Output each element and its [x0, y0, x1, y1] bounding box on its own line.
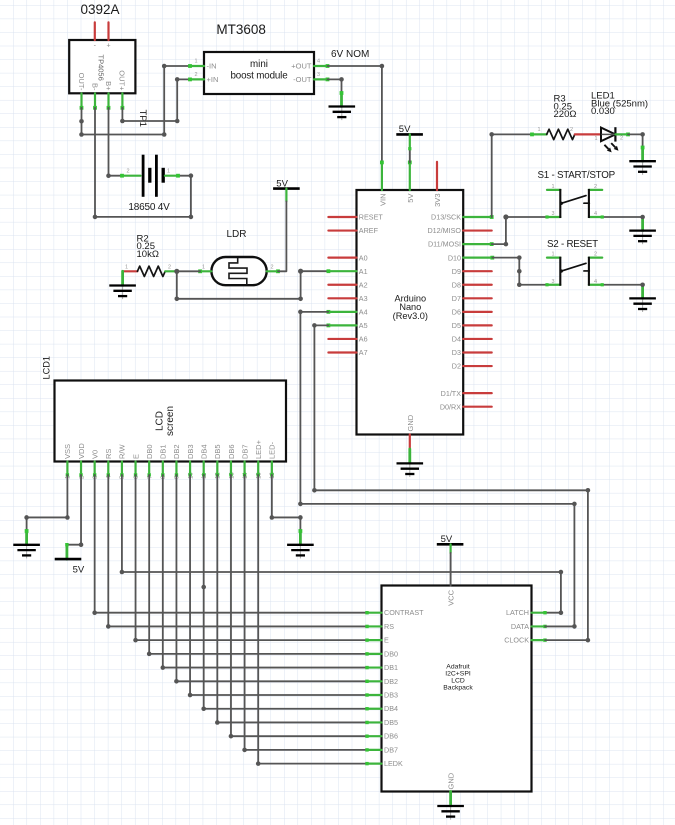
svg-text:0.030: 0.030 [591, 106, 615, 117]
svg-text:I2C+SPI: I2C+SPI [445, 670, 471, 677]
power symbol 5V below LCD [55, 559, 85, 575]
svg-text:4: 4 [594, 279, 597, 285]
Arduino pin VIN leg [380, 161, 384, 191]
wire LCD pin 6 to backpack E [133, 475, 367, 643]
backpack pin label GND [447, 772, 456, 789]
svg-text:A3: A3 [359, 294, 368, 303]
photoresistor LDR label [226, 229, 246, 240]
LCD1 pin legs [66, 462, 274, 477]
wire LCD pin 7 to backpack DB0 [147, 475, 367, 656]
svg-text:OUT-: OUT- [77, 73, 86, 91]
ground MT3608 -OUT [329, 107, 356, 121]
svg-text:A6: A6 [359, 335, 368, 344]
MT3608 pin number 2 [194, 72, 197, 78]
svg-text:D5: D5 [452, 321, 461, 330]
ground backpack [437, 806, 464, 820]
svg-text:18650 4V: 18650 4V [128, 202, 170, 213]
svg-text:A7: A7 [359, 348, 368, 357]
svg-text:B+: B+ [104, 81, 113, 91]
boost module MT3608 body [204, 52, 314, 94]
svg-text:+IN: +IN [207, 75, 219, 84]
LDR pin numbers [202, 264, 274, 270]
boost module MT3608 label [216, 22, 266, 37]
backpack pin VCC leg [450, 544, 452, 585]
svg-text:5V: 5V [441, 534, 453, 545]
svg-text:D13/SCK: D13/SCK [431, 213, 461, 222]
switch S2 pin numbers [551, 252, 597, 285]
TP4056 pin leg OUT- [80, 93, 84, 109]
photoresistor LDR pin1 leg [198, 269, 211, 273]
svg-text:GND: GND [447, 772, 456, 789]
junction dots CLOCK net [312, 323, 590, 642]
svg-text:DB2: DB2 [172, 444, 181, 459]
svg-text:VSS: VSS [63, 444, 72, 459]
junction dot S2 ground wire [640, 282, 645, 287]
resistor R2 body [137, 266, 165, 276]
svg-text:3V3: 3V3 [433, 194, 442, 207]
charger module TP4056 label 0392A [81, 2, 120, 17]
svg-text:AREF: AREF [359, 226, 379, 235]
svg-text:2: 2 [570, 127, 573, 133]
svg-text:OUT+: OUT+ [118, 70, 127, 91]
svg-text:MT3608: MT3608 [216, 22, 266, 37]
svg-text:D11/MOSI: D11/MOSI [428, 240, 461, 249]
wire S2 to ground [601, 283, 643, 298]
net label 6V NOM [331, 49, 369, 60]
ratsnest R3 to LED1 [575, 133, 601, 135]
wire LCD pin 8 to backpack DB1 [161, 475, 367, 670]
MT3608 pin leg +IN [188, 78, 204, 82]
svg-text:GND: GND [406, 414, 415, 431]
svg-text:1: 1 [202, 264, 205, 270]
junction dots A1 net [175, 269, 304, 302]
junction dot 6V NOM [380, 64, 385, 69]
Arduino unconnected left pins [328, 217, 356, 353]
wire LCD pin 4 to backpack RS [106, 475, 367, 629]
junction dots VDD net [65, 542, 83, 547]
svg-text:E: E [131, 454, 140, 459]
LCD1 pin numbers [66, 472, 276, 479]
svg-text:LED-: LED- [268, 441, 277, 459]
svg-text:2: 2 [270, 264, 273, 270]
Arduino pin 5V leg [408, 161, 412, 191]
svg-text:VIN: VIN [378, 194, 387, 207]
backpack name [443, 663, 473, 691]
MT3608 pin number 4 [317, 59, 320, 65]
svg-text:A1: A1 [359, 267, 368, 276]
svg-text:DB2: DB2 [384, 677, 398, 686]
svg-text:D4: D4 [452, 335, 461, 344]
svg-text:CONTRAST: CONTRAST [384, 608, 424, 617]
junction dots LED- net [270, 515, 303, 520]
svg-text:2: 2 [168, 264, 171, 270]
LED pin numbers [594, 136, 623, 143]
svg-text:mini: mini [250, 59, 268, 70]
svg-text:3: 3 [551, 279, 554, 285]
svg-text:B-: B- [90, 83, 99, 91]
svg-text:4: 4 [317, 59, 320, 65]
wire LDR node to Arduino A1 [177, 271, 329, 299]
TP4056 unconnected pin IN+ [107, 22, 109, 40]
svg-text:D0/RX: D0/RX [440, 402, 461, 411]
svg-text:5V: 5V [406, 194, 415, 203]
resistor R2 labels [137, 234, 159, 260]
svg-text:V0: V0 [90, 450, 99, 459]
LED LED1 labels [591, 91, 648, 117]
Arduino pin label 5V top [406, 194, 415, 203]
svg-text:DB0: DB0 [384, 649, 398, 658]
test point TP1 label [137, 110, 148, 127]
Arduino pin label 3V3 [433, 194, 442, 207]
svg-text:(Rev3.0): (Rev3.0) [393, 311, 428, 321]
backpack right pin labels [504, 608, 529, 644]
MT3608 pin label -IN [207, 61, 217, 70]
junction dot R2-LDR node [174, 269, 200, 274]
TP4056 pin leg OUT+ [121, 93, 125, 109]
wire VDD to 5V [67, 475, 81, 559]
wire D11 to S1 [492, 215, 549, 244]
wire A5 to backpack CLOCK [314, 325, 588, 640]
junction dots DATA net [298, 310, 577, 629]
Arduino pin label GND [406, 414, 415, 431]
svg-text:D3: D3 [452, 348, 461, 357]
svg-text:10kΩ: 10kΩ [137, 249, 159, 260]
svg-text:A2: A2 [359, 280, 368, 289]
wire D13 to R3 [492, 134, 532, 217]
svg-text:D6: D6 [452, 307, 461, 316]
MT3608 pin leg +OUT [314, 64, 329, 68]
TP4056 pin label OUT- [77, 73, 86, 91]
wire LCD pin 9 to backpack DB2 [174, 475, 367, 684]
svg-text:D9: D9 [452, 267, 461, 276]
LED cathode leg [615, 133, 629, 137]
ground Arduino GND [397, 463, 424, 477]
TP4056 pin label B+ [104, 81, 113, 91]
switch S1 label [538, 170, 616, 181]
TP4056 pin leg B- [93, 93, 97, 109]
LED LED1 symbol [601, 127, 615, 141]
svg-text:D1/TX: D1/TX [441, 389, 462, 398]
wire +OUT to Arduino VIN [328, 66, 382, 162]
svg-text:1: 1 [551, 252, 554, 258]
MT3608 pin label -OUT [293, 75, 312, 84]
resistor R3 labels [554, 94, 577, 120]
svg-text:RESET: RESET [359, 213, 384, 222]
charger module TP4056 body [69, 40, 135, 93]
svg-text:DB5: DB5 [213, 444, 222, 459]
backpack module body [382, 586, 532, 792]
svg-text:TP1: TP1 [137, 110, 148, 127]
svg-text:D10: D10 [448, 253, 461, 262]
svg-text:1: 1 [125, 264, 128, 270]
junction dot S1 ground wire [640, 215, 645, 220]
svg-text:Backpack: Backpack [443, 684, 473, 691]
wire LCD pin 13 to backpack DB6 [229, 475, 367, 739]
wire OUT- to MT3608 -IN [82, 66, 191, 135]
MT3608 pin number 3 [317, 72, 320, 78]
wire A4 to backpack DATA [300, 312, 574, 627]
svg-text:2: 2 [620, 136, 623, 142]
Arduino pin A1 leg [327, 269, 357, 273]
photoresistor LDR meander [229, 258, 247, 285]
svg-text:DB6: DB6 [227, 444, 236, 459]
svg-text:TP4056: TP4056 [97, 55, 106, 81]
svg-text:RS: RS [384, 622, 394, 631]
wire LCD pin 10 to backpack DB3 [188, 475, 367, 697]
wire LCD pin 12 to backpack DB5 [215, 475, 367, 725]
MT3608 pin label +OUT [291, 61, 312, 70]
svg-text:1: 1 [194, 59, 197, 65]
Arduino pin A5 leg [327, 324, 357, 328]
svg-text:D8: D8 [452, 280, 461, 289]
svg-text:3: 3 [551, 211, 554, 217]
wire R2 pin1 to ground [121, 271, 124, 285]
charger module TP4056 name [97, 55, 106, 81]
ground S2 [629, 298, 656, 312]
Arduino pin GND leg [409, 435, 411, 464]
svg-text:DB6: DB6 [384, 732, 398, 741]
svg-text:RS: RS [104, 449, 113, 459]
svg-text:A5: A5 [359, 321, 368, 330]
svg-text:5V: 5V [73, 564, 85, 575]
junction dot LED wire [640, 132, 645, 137]
battery pin number 1 [167, 169, 170, 175]
photoresistor LDR body [211, 257, 266, 285]
svg-text:1: 1 [167, 169, 170, 175]
resistor R2 pin1 stub [123, 270, 138, 272]
Arduino unconnected right pins [463, 231, 492, 407]
svg-text:DB3: DB3 [384, 691, 398, 700]
MT3608 pin number 1 [194, 59, 197, 65]
junction dots OUT+ net [120, 77, 179, 123]
Arduino pin A4 leg [327, 310, 357, 314]
ground LCD VSS [13, 545, 40, 559]
MT3608 pin leg -OUT [314, 78, 329, 82]
svg-text:DB5: DB5 [384, 718, 398, 727]
svg-text:4: 4 [594, 211, 597, 217]
svg-text:DATA: DATA [511, 622, 529, 631]
svg-text:2: 2 [594, 252, 597, 258]
LED LED1 emission arrows [604, 143, 618, 152]
svg-text:5V: 5V [399, 124, 411, 135]
svg-text:LED+: LED+ [254, 439, 263, 459]
svg-text:6V NOM: 6V NOM [331, 49, 369, 60]
photoresistor LDR pin2 leg [267, 269, 280, 273]
backpack pin GND leg [449, 792, 452, 807]
svg-text:+: + [106, 43, 110, 50]
TP4056 pin label B- [90, 83, 99, 91]
power symbol 5V above backpack [437, 534, 464, 545]
svg-text:R/W: R/W [118, 444, 127, 460]
svg-text:DB3: DB3 [186, 444, 195, 459]
wire LCD pin 15 to backpack LEDK [256, 475, 367, 766]
Arduino pin D11 leg [463, 242, 493, 246]
wire B+ to battery plus [109, 108, 123, 176]
svg-text:2: 2 [594, 184, 597, 190]
svg-text:VCC: VCC [447, 589, 456, 605]
svg-text:Adafruit: Adafruit [446, 663, 470, 670]
svg-text:DB4: DB4 [384, 704, 398, 713]
backpack pin label VCC [447, 589, 456, 605]
TP4056 pin label OUT+ [118, 70, 127, 91]
battery BT1 18650 symbol [143, 155, 163, 197]
backpack right pin legs [532, 611, 547, 642]
wire -OUT to ground [328, 79, 344, 106]
svg-text:A4: A4 [359, 307, 368, 316]
svg-text:LCD1: LCD1 [42, 356, 52, 380]
TP4056 pin label plus [106, 43, 110, 50]
switch S1 symbol [547, 189, 602, 218]
power symbol 5V near LDR [273, 178, 300, 189]
TP4056 pin label minus [94, 43, 97, 50]
TP4056 unconnected pin IN- [94, 22, 96, 40]
ground LCD LED- [287, 545, 314, 559]
wire 5V to LDR pin2 [278, 189, 286, 272]
switch S2 symbol [547, 257, 602, 286]
svg-text:DB1: DB1 [384, 663, 398, 672]
wire OUT+ to MT3608 +IN [122, 79, 190, 121]
resistor R3 body [547, 129, 575, 139]
svg-text:D12/MISO: D12/MISO [427, 226, 461, 235]
junction dots LATCH net [120, 570, 564, 615]
wire LCD pin 11 to backpack DB4 [201, 475, 367, 711]
junction dots D10 net [517, 255, 522, 287]
wire LED- to ground [272, 475, 302, 545]
power symbol 5V above Arduino [396, 124, 423, 135]
wire VSS to ground [25, 475, 68, 545]
svg-text:1: 1 [594, 136, 597, 142]
LCD1 designator label [42, 356, 52, 380]
resistor R3 pin1 leg [530, 133, 547, 137]
switch S2 label [547, 239, 598, 250]
svg-text:S1 - START/STOP: S1 - START/STOP [538, 170, 616, 181]
svg-text:LEDK: LEDK [384, 759, 403, 768]
svg-text:DB7: DB7 [240, 444, 249, 459]
junction dots OUT- net [79, 64, 166, 137]
LCD1 pin labels [63, 439, 276, 459]
junction dot -OUT [339, 77, 344, 82]
svg-text:LCD: LCD [451, 677, 465, 684]
Arduino left pin labels [359, 213, 384, 358]
svg-text:DB1: DB1 [159, 444, 168, 459]
svg-text:220Ω: 220Ω [554, 109, 577, 120]
wire LCD pin 14 to backpack DB7 [242, 475, 367, 752]
svg-text:boost module: boost module [230, 71, 288, 82]
junction dot D13 riser [489, 132, 494, 137]
junction dots B- net [93, 173, 194, 219]
Arduino Nano name [393, 293, 428, 321]
svg-text:0392A: 0392A [81, 2, 120, 17]
svg-text:D2: D2 [452, 362, 461, 371]
Arduino unconnected pin 3V3 [436, 162, 438, 190]
svg-text:DB4: DB4 [200, 444, 209, 459]
svg-text:S2 - RESET: S2 - RESET [547, 239, 598, 250]
battery label 18650 4V [128, 202, 170, 213]
Arduino pin D13 leg [463, 215, 493, 219]
wire LED to ground [628, 134, 645, 161]
svg-text:1: 1 [551, 184, 554, 190]
svg-text:E: E [384, 636, 389, 645]
backpack left pin legs [365, 611, 381, 765]
wire S1 to ground [601, 215, 643, 230]
svg-text:DB7: DB7 [384, 745, 398, 754]
LCD1 name [155, 406, 176, 436]
Arduino right pin labels [427, 213, 461, 412]
MT3608 text boost module [230, 71, 288, 82]
svg-text:CLOCK: CLOCK [504, 636, 529, 645]
svg-text:2: 2 [126, 169, 129, 175]
wire B- to battery minus [95, 108, 191, 217]
battery pin 1 leg [165, 174, 180, 178]
svg-text:VDD: VDD [77, 443, 86, 459]
svg-text:D7: D7 [452, 294, 461, 303]
backpack left pin labels [384, 608, 424, 768]
battery pin 2 leg [120, 174, 140, 178]
junction dots D11 net [503, 214, 508, 246]
svg-text:-OUT: -OUT [293, 75, 312, 84]
svg-text:-IN: -IN [207, 61, 217, 70]
LCD1 body [55, 381, 287, 462]
junction dot B+ net [106, 173, 111, 178]
ground R2 [109, 286, 136, 300]
svg-text:DB0: DB0 [145, 444, 154, 459]
resistor R2 pin2 leg [165, 270, 177, 272]
Arduino Nano U1 body [357, 190, 464, 435]
MT3608 pin label +IN [207, 75, 219, 84]
TP4056 pin leg B+ [107, 93, 111, 109]
MT3608 text mini [250, 59, 268, 70]
svg-text:A0: A0 [359, 253, 368, 262]
junction dots VSS net [24, 515, 69, 520]
svg-text:LATCH: LATCH [506, 608, 529, 617]
wire 5V bar to Arduino 5V pin [408, 134, 411, 162]
resistor R3 pin numbers [537, 127, 573, 133]
wire D10 to S2 [492, 258, 548, 287]
svg-text:1: 1 [537, 127, 540, 133]
wire R/W to backpack LATCH [122, 475, 561, 613]
Arduino pin label VIN [378, 194, 387, 207]
svg-text:LDR: LDR [226, 229, 246, 240]
svg-text:2: 2 [194, 72, 197, 78]
MT3608 pin leg -IN [188, 64, 204, 68]
ground LED1 [629, 161, 656, 175]
switch S1 pin numbers [551, 184, 597, 217]
wire LCD pin 3 to backpack CONTRAST [92, 475, 367, 615]
battery pin number 2 [126, 169, 129, 175]
ground S1 [629, 231, 656, 245]
svg-text:+OUT: +OUT [291, 61, 312, 70]
Arduino pin D10 leg [463, 256, 494, 260]
resistor R2 pin numbers [125, 264, 171, 270]
svg-text:screen: screen [165, 406, 176, 436]
svg-text:3: 3 [317, 72, 320, 78]
